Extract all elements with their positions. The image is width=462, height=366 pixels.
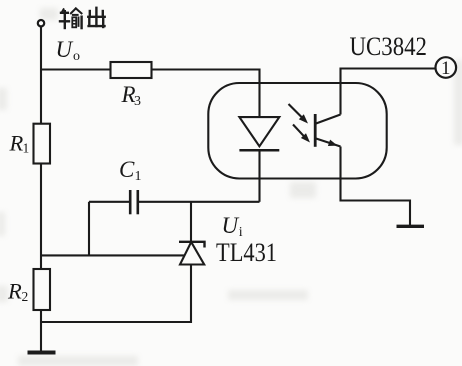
wire: REF wire from divider node to TL431 (41, 254, 184, 256)
label R3 (121, 82, 142, 109)
svg-text:1: 1 (441, 58, 451, 79)
resistor R3 (111, 62, 152, 78)
light arrow 2 (293, 125, 310, 143)
label R1 (9, 131, 30, 156)
optocoupler LED (239, 117, 279, 150)
svg-text:o: o (73, 49, 80, 64)
pin 1 of UC3842 (436, 57, 457, 79)
label C1 (119, 157, 142, 184)
light arrow 1 (289, 104, 309, 124)
svg-text:R: R (9, 131, 24, 156)
wire: left rail, R1 to R2 (40, 164, 42, 270)
wire: collector to UC3842 pin 1 (341, 69, 436, 115)
TL431 shunt regulator (179, 242, 205, 265)
ground (right) (397, 225, 425, 228)
svg-text:U: U (222, 213, 240, 238)
svg-text:U: U (56, 37, 74, 62)
resistor R1 (34, 124, 51, 164)
wire: LED cathode down to feedback node (258, 150, 260, 202)
wire: feedback node to C1 left plate (89, 201, 129, 203)
svg-text:2: 2 (22, 289, 29, 304)
label 输出 (output) (60, 8, 105, 28)
label Ui (reference input) (222, 213, 243, 240)
svg-text:3: 3 (134, 94, 141, 109)
svg-text:TL431: TL431 (216, 238, 277, 267)
svg-text:UC3842: UC3842 (350, 32, 428, 61)
wire: R2 to ground (40, 310, 42, 352)
svg-text:R: R (7, 279, 22, 304)
wire: R3 to LED anode (152, 70, 260, 118)
svg-text:1: 1 (23, 141, 30, 156)
wire: C1 left branch down to REF wire (88, 202, 90, 256)
svg-text:C: C (119, 157, 135, 182)
wire: TL431 anode down and bottom return (41, 265, 191, 323)
svg-text:1: 1 (135, 169, 142, 184)
phototransistor (315, 114, 340, 147)
ground (left) (28, 351, 56, 355)
label R2 (7, 279, 28, 304)
wire: C1 right plate to LED cathode (139, 201, 260, 203)
wire: TL431 cathode up to feedback node (190, 202, 192, 242)
capacitor C1 (130, 190, 138, 214)
optocoupler package (208, 83, 386, 179)
wire: top rail Uo node to R3 (41, 68, 111, 70)
wire: emitter to ground (341, 147, 411, 226)
label Uo (output voltage) (56, 37, 81, 64)
output terminal (38, 20, 44, 26)
resistor R2 (34, 269, 51, 310)
wire: left rail, terminal to R1 (40, 27, 42, 124)
